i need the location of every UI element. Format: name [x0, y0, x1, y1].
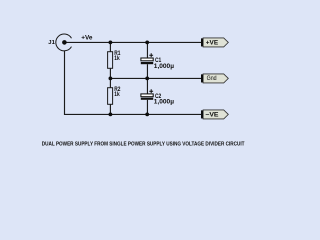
svg-text:DUAL POWER SUPPLY FROM SINGLE: DUAL POWER SUPPLY FROM SINGLE POWER SUPP… [42, 142, 245, 148]
svg-text:+VE: +VE [206, 40, 218, 46]
svg-text:+Ve: +Ve [81, 34, 93, 41]
svg-text:1k: 1k [114, 92, 120, 98]
svg-text:J1: J1 [48, 40, 55, 46]
svg-text:−VE: −VE [205, 112, 218, 119]
svg-text:1,000µ: 1,000µ [154, 100, 175, 106]
svg-text:1,000µ: 1,000µ [154, 64, 175, 70]
svg-text:Gnd: Gnd [207, 75, 217, 82]
svg-text:1k: 1k [114, 56, 120, 62]
